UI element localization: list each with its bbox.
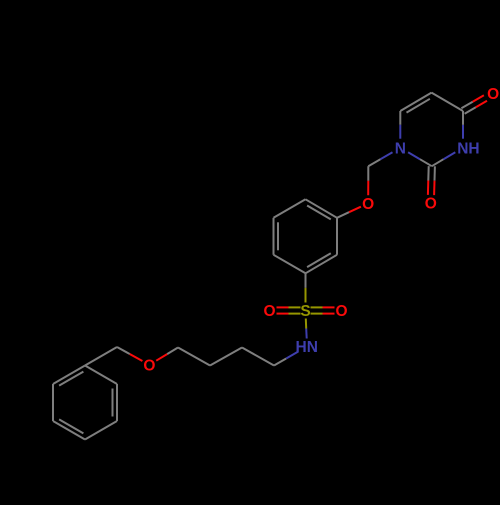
wire: uracil N3-C4 bond (462, 125, 464, 139)
wire: phenyl ring bond 5 (52, 384, 54, 421)
wire: phenyl ring bond 6 (53, 366, 85, 385)
wire: S=O right double bond (311, 313, 323, 315)
svg-text:O: O (487, 86, 499, 103)
wire: uracil C4-C5 bond (432, 93, 464, 111)
wire: uracil C5=C6 bond (400, 93, 431, 111)
wire: phenyl ring bond 1 (85, 366, 117, 385)
svg-text:O: O (263, 303, 275, 320)
svg-text:NH: NH (457, 140, 479, 157)
svg-text:O: O (425, 196, 437, 213)
wire: O-CH2 benzyl bond (130, 354, 143, 361)
wire: chain CH2-CH2 bond 1 (242, 348, 274, 366)
wire: uracil C5=C6 inner double line (407, 99, 430, 113)
svg-text:O: O (362, 196, 374, 213)
svg-text:O: O (335, 303, 347, 320)
wire: chain CH2-CH2 bond 3 (178, 348, 210, 366)
svg-text:O: O (143, 358, 155, 375)
wire: benzene ring C2-C1 bond (306, 255, 338, 273)
wire: S=O left double bond (289, 306, 301, 308)
wire: benzene ring C4-C3 bond (306, 199, 338, 218)
svg-text:S: S (300, 303, 310, 320)
wire: chain CH2-O bond (167, 348, 178, 355)
wire: phenyl ring inner double line 1 (112, 389, 114, 417)
wire: N-CH2 chain bond (286, 352, 298, 359)
wire: uracil N1-C2 bond (408, 152, 420, 159)
wire: benzene ring C1-C6 bond (274, 255, 306, 273)
wire: chain CH2-CH2 bond 2 (210, 348, 242, 366)
wire: phenyl ring bond 3 (85, 421, 117, 440)
wire: benzene ring inner double line 3 (277, 222, 279, 250)
wire: N1-CH2 bond (380, 152, 392, 159)
wire: C4=O carbonyl double bond (465, 107, 476, 114)
wire: phenyl ring inner double line 2 (59, 419, 83, 433)
wire: uracil C6-N1 bond (399, 111, 401, 125)
wire: phenyl ring bond 4 (53, 421, 85, 440)
svg-text:N: N (395, 140, 406, 157)
wire: benzene ring inner double line 1 (307, 206, 331, 220)
wire: benzene ring inner double line 2 (307, 253, 331, 267)
wire: phenyl ring bond 2 (116, 384, 118, 421)
wire: aryl-S bond (305, 273, 307, 288)
wire: phenyl ring inner double line 3 (59, 372, 83, 386)
wire: uracil C2-N3 bond (432, 159, 444, 166)
wire: benzene ring C3-C2 bond (336, 218, 338, 255)
wire: benzene ring C5-C4 bond (274, 199, 306, 218)
wire: S-N sulfonamide bond (305, 319, 307, 329)
wire: C2=O carbonyl double bond (427, 166, 429, 180)
svg-text:HN: HN (296, 339, 318, 356)
wire: benzene ring C6-C5 bond (273, 218, 275, 255)
wire: CH2-O ether bond (367, 166, 369, 181)
wire: O-aryl ether bond (349, 207, 361, 213)
wire: CH2-phenyl bond (85, 347, 117, 366)
